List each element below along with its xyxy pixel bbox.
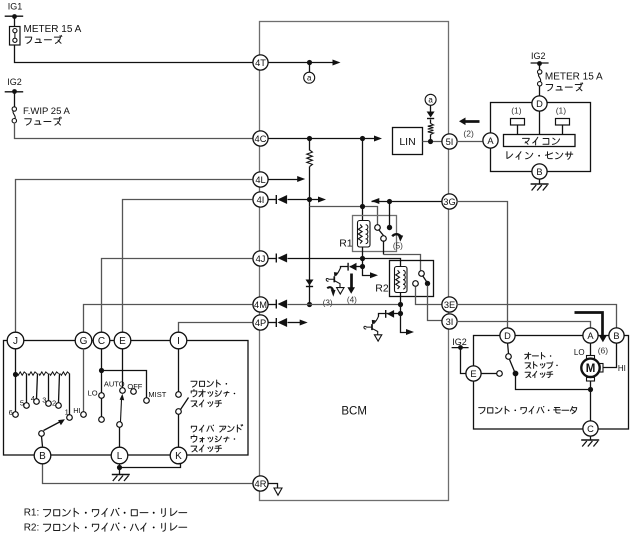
connector A (motor) <box>583 328 598 343</box>
svg-text:4R: 4R <box>255 479 267 489</box>
svg-text:a: a <box>428 96 433 105</box>
svg-text:R2: R2 <box>375 283 389 295</box>
wire 4J to C <box>102 259 253 333</box>
mode blade <box>121 400 122 422</box>
auto-stop contact E <box>497 371 503 377</box>
wire auto-stop to motor <box>516 374 591 390</box>
R1 switch blade <box>379 230 384 236</box>
contact 2 wire <box>59 374 60 403</box>
contact 4 wire <box>37 374 38 399</box>
signal arrow (3) <box>327 287 333 290</box>
svg-text:AUTO: AUTO <box>104 379 125 388</box>
svg-text:MIST: MIST <box>148 390 166 399</box>
wire resistor to 5I wire <box>430 135 432 142</box>
svg-text:D: D <box>504 331 511 341</box>
wire L up <box>119 428 121 447</box>
wire B to 4R <box>43 464 253 484</box>
contact 1 <box>67 415 73 421</box>
wire 3I to motor A <box>457 322 591 328</box>
wire B sensor to ground <box>539 180 541 185</box>
wire 4L internal arrow <box>268 179 298 181</box>
svg-text:IG1: IG1 <box>8 2 23 12</box>
connector J <box>7 332 24 349</box>
svg-text:C: C <box>98 336 105 347</box>
wire IG2 to E <box>461 348 466 374</box>
svg-text:(6): (6) <box>598 346 609 356</box>
svg-text:4P: 4P <box>255 318 266 328</box>
svg-text:LO: LO <box>88 388 98 397</box>
svg-text:(5): (5) <box>393 242 403 251</box>
wire R1 NO to 3G <box>389 202 391 228</box>
wiper motor box <box>474 336 629 430</box>
svg-text:4T: 4T <box>255 58 266 68</box>
fuse METER 15 A (IG1) <box>10 27 21 46</box>
junction L ground <box>117 465 122 470</box>
mode blade pivot <box>117 422 123 428</box>
wire fuse1 to 4T <box>15 45 253 63</box>
wire junction to ground <box>119 468 121 475</box>
svg-text:C: C <box>587 424 594 434</box>
wire main vertical <box>362 139 364 221</box>
junction C switch <box>99 368 104 373</box>
svg-text:E: E <box>470 369 476 379</box>
wire 4P to I <box>179 323 253 333</box>
wire IG2 to fuse3 <box>539 64 541 70</box>
svg-text:2: 2 <box>52 399 56 408</box>
diode D-4P <box>275 318 277 327</box>
connector L (switch) <box>111 447 128 464</box>
connector D (sensor) <box>532 96 547 111</box>
wire fuse2 to 4C <box>15 123 253 139</box>
label front washer switch <box>191 380 227 387</box>
connector 4I <box>253 192 268 207</box>
contact 6 <box>13 412 19 418</box>
connector A (sensor) <box>483 133 498 148</box>
connector B (sensor) <box>532 164 547 179</box>
node a2 <box>425 94 436 105</box>
svg-text:3: 3 <box>42 395 46 404</box>
signal arrow (4) <box>350 274 353 288</box>
wire IG2 to fuse <box>14 92 16 107</box>
wire D to microcomputer <box>539 111 541 135</box>
contact LO top <box>99 393 105 399</box>
svg-text:4L: 4L <box>255 175 265 185</box>
wire C down <box>101 349 103 371</box>
junction 4M row <box>307 302 312 307</box>
wire E down <box>122 349 124 388</box>
wire washer to K <box>178 415 180 447</box>
junction 4I row <box>307 197 312 202</box>
LIN driver U-LIN <box>393 128 423 155</box>
svg-text:K: K <box>175 451 182 462</box>
motor M1 <box>587 356 595 360</box>
contact LO bottom <box>99 417 105 423</box>
junction 4C-resistor <box>307 136 312 141</box>
wire motor HI tab to B <box>604 343 617 368</box>
wire diode Q2 <box>387 313 401 315</box>
washer blade <box>181 398 189 410</box>
connector 4J <box>253 251 268 266</box>
contact 3 wire <box>48 374 50 401</box>
R2 switch blade <box>423 276 427 282</box>
connector 4T <box>253 55 268 70</box>
label wiper and washer switch <box>191 425 242 432</box>
washer contact top <box>176 392 182 398</box>
connector C <box>93 332 110 349</box>
contact MIST <box>144 398 150 404</box>
svg-text:LIN: LIN <box>399 136 415 148</box>
R1 switch common <box>375 225 381 231</box>
wire I down <box>178 349 180 392</box>
wire R2 NC to 3E <box>416 287 442 305</box>
connector D (motor) <box>500 328 515 343</box>
junction R1 coil bottom <box>360 256 365 261</box>
contact HI <box>81 412 87 418</box>
wire J down <box>15 349 17 375</box>
svg-text:4: 4 <box>31 394 35 403</box>
connector 3E <box>442 297 457 312</box>
wire IG1 to fuse <box>14 17 16 27</box>
svg-text:4C: 4C <box>255 134 267 144</box>
wire 4P internal <box>268 322 277 324</box>
connector 3I <box>442 314 457 329</box>
R2 switch common <box>419 271 425 277</box>
contact 5 <box>24 403 30 409</box>
R2 NC contact <box>413 281 419 287</box>
wire a2 down <box>430 106 432 113</box>
junction 4C-main <box>360 136 365 141</box>
label fuse3 katakana <box>546 83 583 91</box>
relay R1 box <box>353 216 397 252</box>
resistor R-a2 <box>428 124 434 135</box>
wire L to ground junction <box>119 464 121 468</box>
wire 4T internal <box>268 62 334 64</box>
svg-text:I: I <box>177 336 180 347</box>
auto-stop contact <box>513 371 519 377</box>
wire E internal <box>482 373 498 375</box>
microcomputer box <box>504 135 576 147</box>
wire 4J internal <box>268 258 277 260</box>
wire resistor to 4I row <box>309 167 311 200</box>
svg-text:(4): (4) <box>347 296 357 305</box>
svg-text:4M: 4M <box>254 300 267 310</box>
wire chain to 1 <box>69 374 71 415</box>
svg-text:B: B <box>613 331 619 341</box>
svg-text:(3): (3) <box>323 298 333 307</box>
connector 5I <box>442 134 457 149</box>
wire C to LO contact <box>101 371 103 393</box>
BCM box <box>260 22 449 501</box>
node a (BCM) <box>304 72 315 83</box>
svg-text:6: 6 <box>9 408 13 417</box>
wire diode to resistor <box>430 120 432 124</box>
INT resistor chain <box>17 372 26 375</box>
ground (motor) <box>581 439 599 441</box>
svg-text:1: 1 <box>65 408 69 417</box>
junction R2 coil 4M <box>398 302 403 307</box>
svg-text:(1): (1) <box>511 105 522 115</box>
R1 coil body <box>358 221 371 248</box>
wire 4J junction down <box>363 259 371 276</box>
wire motor bottom <box>590 381 592 421</box>
connector E (motor) <box>466 366 481 381</box>
svg-text:M: M <box>586 363 596 375</box>
junction motor bottom <box>588 387 593 392</box>
svg-text:3G: 3G <box>443 197 455 207</box>
junction diode Q2 <box>398 311 403 316</box>
connector 4M <box>253 297 268 312</box>
wire 4L to J <box>16 180 253 333</box>
svg-text:5: 5 <box>20 399 24 408</box>
INT blade <box>44 422 61 431</box>
contact 5 wire <box>26 374 28 403</box>
INT blade pivot <box>39 431 45 437</box>
ground (rain sensor) <box>531 183 549 185</box>
auto-stop blade <box>510 360 515 372</box>
relay R2 box <box>390 261 434 297</box>
svg-text:A: A <box>587 331 594 341</box>
svg-text:5I: 5I <box>446 137 454 147</box>
wire A to motor <box>590 343 592 356</box>
signal arrow (2) <box>466 120 480 123</box>
junction LIN-5I <box>428 139 433 144</box>
transistor Q1 <box>333 276 335 282</box>
wiper switch box <box>4 341 249 456</box>
ground (switch) <box>112 474 130 476</box>
svg-text:A: A <box>487 136 494 146</box>
signal arrow (6) <box>575 313 603 336</box>
svg-text:J: J <box>13 336 18 347</box>
svg-text:B: B <box>39 451 46 462</box>
wire R2 NO to 3I <box>428 286 442 321</box>
R1 switch out <box>381 236 387 242</box>
connector G <box>75 332 92 349</box>
junction 3G-R1NO <box>387 199 392 204</box>
wire 5I to A <box>457 141 483 143</box>
wire diode Q1 <box>350 266 363 268</box>
label rain sensor <box>507 152 573 160</box>
contact 2 <box>56 403 62 409</box>
svg-text:E: E <box>119 336 126 347</box>
contact OFF <box>131 389 137 395</box>
connector 3G <box>442 194 457 209</box>
wire D internal <box>508 343 509 354</box>
label fuse2 katakana <box>25 117 62 125</box>
svg-text:IG2: IG2 <box>531 51 546 61</box>
connector E <box>114 332 131 349</box>
fuse METER 15 A (sensor) <box>538 70 542 74</box>
connector 4L <box>253 172 268 187</box>
contact 6 wire <box>15 375 17 412</box>
svg-text:HI: HI <box>618 364 626 373</box>
diode D-4M <box>306 280 314 286</box>
R2 NO contact <box>425 281 430 286</box>
connector B (motor) <box>609 328 624 343</box>
wire sense to R1 switch <box>310 207 378 225</box>
svg-text:L: L <box>117 451 123 462</box>
svg-text:METER 15 A: METER 15 A <box>24 24 82 35</box>
connector B (switch) <box>34 447 51 464</box>
wire 4I internal <box>268 199 277 201</box>
auto-stop pivot <box>506 354 512 360</box>
wire R1 coil bottom <box>362 248 364 259</box>
contact 3 <box>46 401 52 407</box>
wire 4M to G <box>84 305 253 333</box>
R1 direction arrow (5) <box>392 234 400 236</box>
svg-text:R1: R1 <box>339 237 353 249</box>
svg-text:a: a <box>307 74 312 83</box>
wire 4M internal <box>268 304 277 306</box>
diode D-4J <box>275 254 277 263</box>
wire B up <box>42 437 43 447</box>
svg-text:D: D <box>536 99 543 109</box>
connector 4C <box>253 131 268 146</box>
svg-text:HI: HI <box>73 406 81 415</box>
contact 4 <box>34 399 40 405</box>
svg-text:B: B <box>536 167 542 177</box>
svg-text:4I: 4I <box>257 195 265 205</box>
wire collector Q1 <box>336 269 341 276</box>
wire collector Q2 <box>373 316 378 324</box>
4R open triangle <box>274 488 282 495</box>
svg-text:3I: 3I <box>446 317 454 327</box>
connector 4R <box>253 476 268 491</box>
svg-text:BCM: BCM <box>341 406 367 418</box>
diode D-4I <box>275 195 277 204</box>
svg-text:IG2: IG2 <box>7 77 22 87</box>
label microcomputer <box>523 137 560 145</box>
contact HI wire <box>83 349 85 412</box>
junction diode Q1 <box>360 264 365 269</box>
junction on 4T wire <box>307 60 312 65</box>
wire 4I junction down <box>309 200 311 305</box>
svg-text:F.WIP 25 A: F.WIP 25 A <box>23 106 70 117</box>
diode D-4M2 <box>275 300 277 309</box>
svg-text:4J: 4J <box>256 254 266 264</box>
svg-text:R2:: R2: <box>24 522 40 533</box>
R2 coil body <box>395 267 408 293</box>
svg-text:G: G <box>80 336 88 347</box>
svg-text:(2): (2) <box>463 128 474 138</box>
wire C to ground <box>590 437 592 441</box>
Q1 emitter open <box>337 288 344 294</box>
connector C (motor) <box>583 421 598 436</box>
svg-text:R1:: R1: <box>24 508 40 519</box>
sensor element left <box>511 119 525 126</box>
wire 4C internal <box>268 138 375 140</box>
wire 4R internal <box>268 484 278 489</box>
sensor element right <box>556 119 570 126</box>
transistor Q2 <box>371 324 373 330</box>
wire 4C junction down <box>309 139 311 151</box>
rain sensor box <box>491 103 591 172</box>
label fuse katakana <box>25 35 62 43</box>
wire R2 coil bottom <box>400 293 402 305</box>
wire 3G to motor D <box>457 202 508 328</box>
connector I <box>170 332 187 349</box>
svg-text:METER 15 A: METER 15 A <box>545 71 603 82</box>
wire R1 out down-right to R2 common <box>383 241 385 255</box>
connector 4P <box>253 315 268 330</box>
Q2 emitter open <box>374 335 381 341</box>
contact AUTO <box>120 388 126 394</box>
label auto stop switch <box>525 353 552 360</box>
fuse F.WIP 25 A (IG2) <box>12 107 16 111</box>
svg-text:(1): (1) <box>556 105 567 115</box>
diode D-a2 <box>427 112 435 118</box>
label front wiper motor <box>479 406 577 414</box>
wire to node a1 <box>309 63 311 73</box>
wire R2coil node down <box>401 305 407 333</box>
R1 NO contact <box>387 225 392 230</box>
diode D-Q1 <box>347 263 349 271</box>
wire 3G internal <box>372 201 442 203</box>
wire LIN to 5I <box>423 141 442 143</box>
resistor R-sense <box>307 150 313 167</box>
wire fuse3 to D <box>539 87 541 96</box>
wire K to ground junction <box>120 464 181 468</box>
diode D-Q2 <box>385 310 387 318</box>
washer pivot <box>176 409 182 415</box>
wire 3E to motor B <box>457 305 617 328</box>
svg-text:LO: LO <box>574 348 585 357</box>
junction INT volume <box>13 372 18 377</box>
wire C to MIST <box>102 371 147 398</box>
connector K (switch) <box>170 447 187 464</box>
wire LO segment <box>101 399 103 418</box>
junction main-R1switch <box>360 204 365 209</box>
svg-text:3E: 3E <box>444 300 455 310</box>
wire 4I to E <box>123 200 253 333</box>
